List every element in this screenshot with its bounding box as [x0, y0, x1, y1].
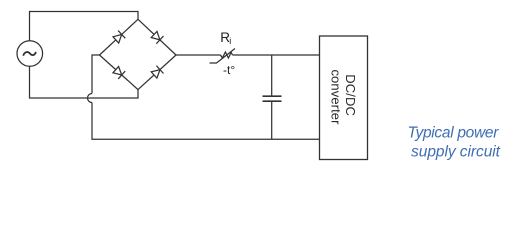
- svg-text:-t°: -t°: [223, 63, 235, 77]
- svg-text:Typical power: Typical power: [408, 124, 500, 141]
- thermistor Ri: [210, 49, 236, 64]
- diode D1 (top-left edge): [100, 19, 139, 55]
- svg-text:DC/DC converter: DC/DC converter: [328, 69, 358, 125]
- diode D2 (top-right edge): [138, 19, 176, 55]
- label Ri: [220, 30, 231, 46]
- capacitor C1: [263, 55, 282, 139]
- wire left-corner stub: [92, 55, 100, 94]
- svg-text:i: i: [229, 36, 231, 46]
- diode D4 (bottom-right edge): [138, 55, 176, 90]
- svg-text:supply circuit: supply circuit: [411, 143, 501, 160]
- dc/dc converter U1: [320, 36, 368, 160]
- caption: Typical power supply circuit: [408, 124, 501, 160]
- wire negative rail to converter: [92, 103, 320, 140]
- wire top rail: [30, 12, 139, 42]
- diode D3 (bottom-left edge): [100, 55, 139, 90]
- wire hop over crossing: [88, 94, 93, 103]
- wire bottom of source to bridge bottom: [30, 66, 139, 98]
- wire positive output rail: [176, 54, 221, 56]
- ac source V1: [17, 41, 43, 67]
